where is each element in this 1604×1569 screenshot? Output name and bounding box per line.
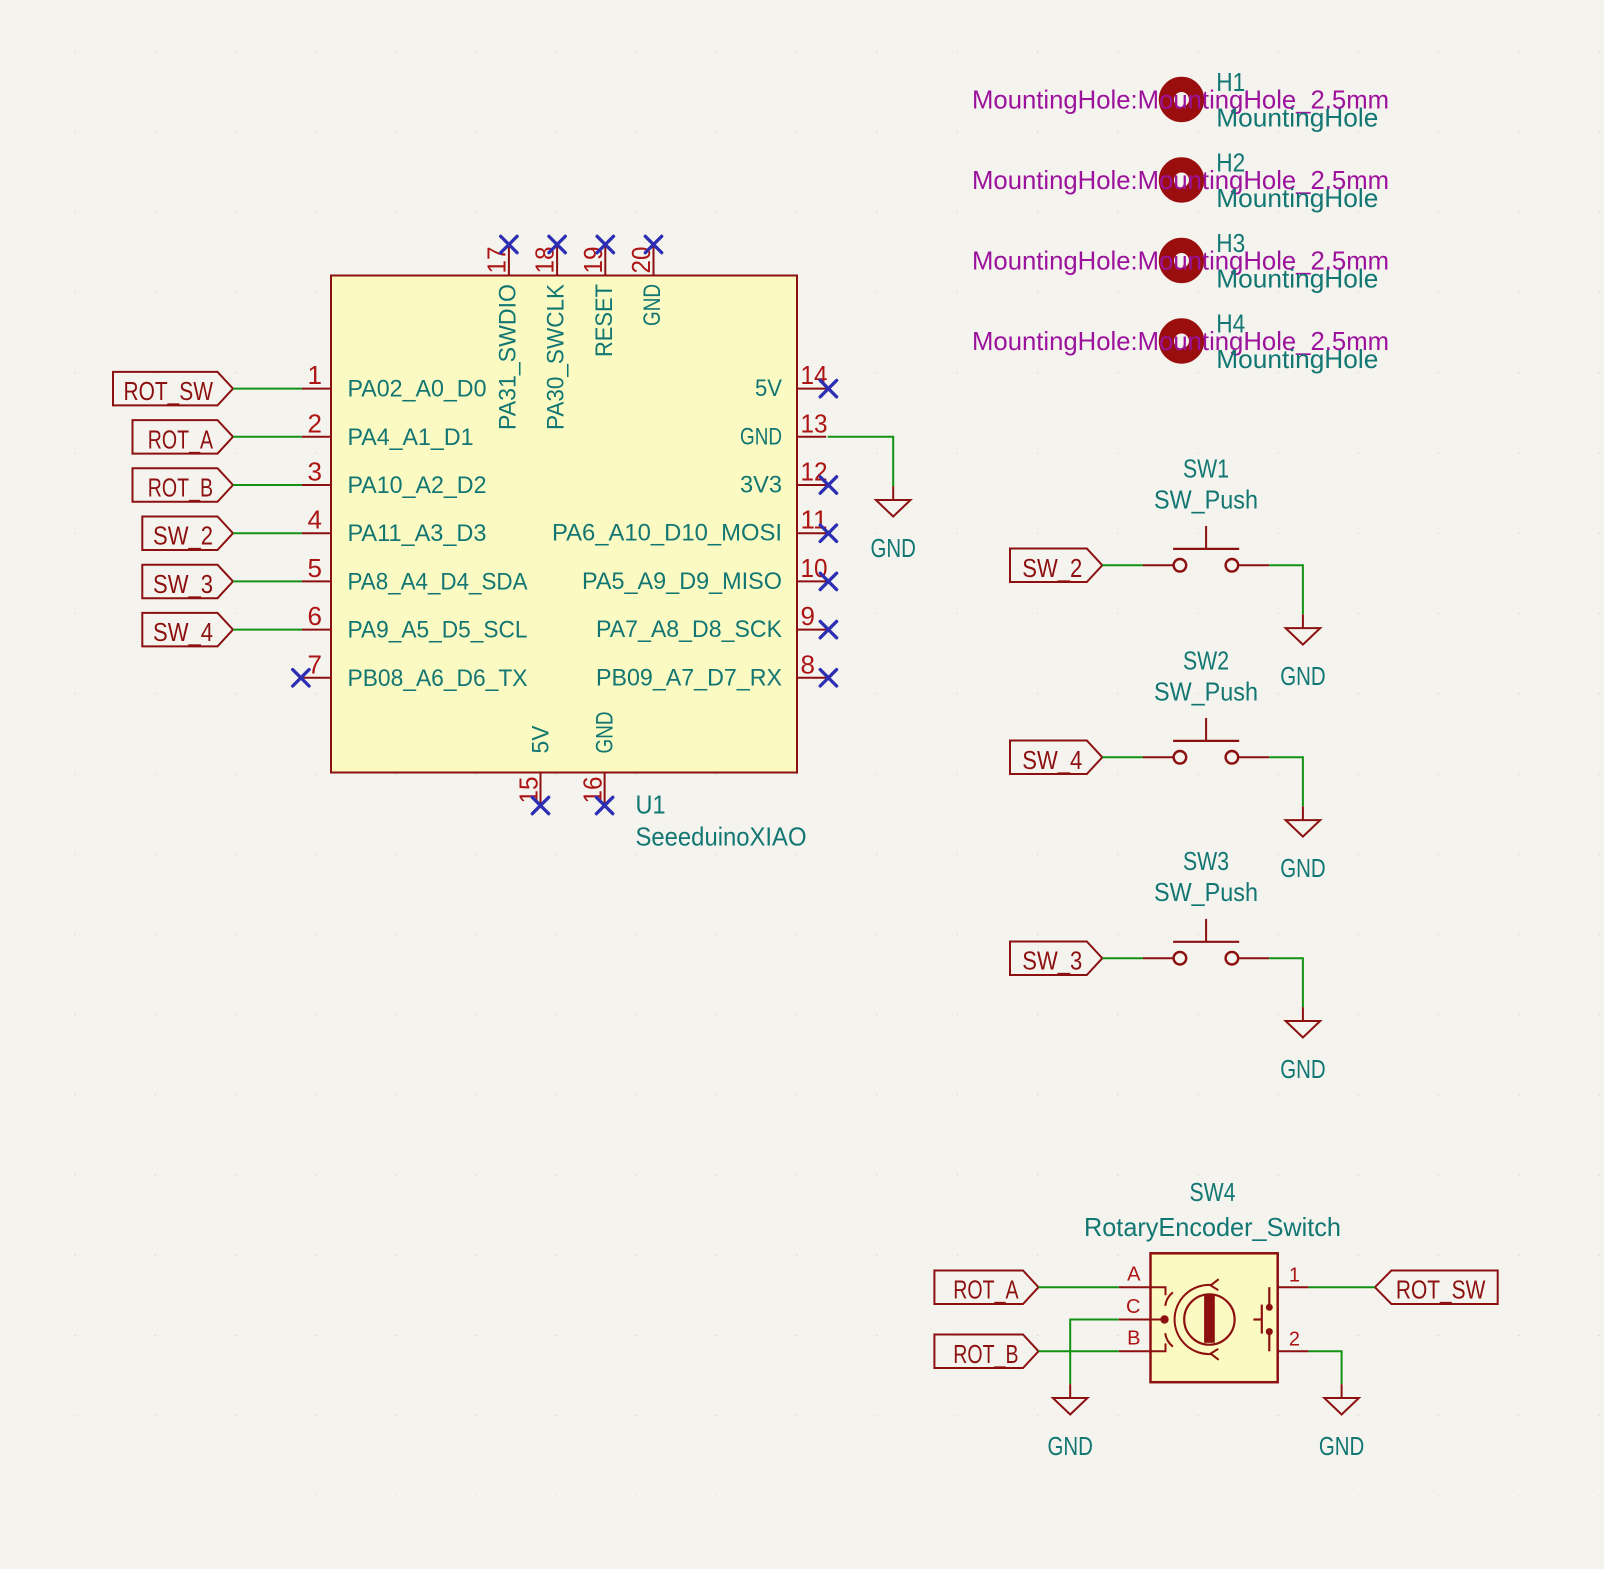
U1 pin 16 (GND) (578, 712, 619, 805)
svg-text:MountingHole: MountingHole (1216, 183, 1378, 213)
svg-text:MountingHole: MountingHole (1216, 344, 1378, 374)
svg-text:GND: GND (1280, 661, 1325, 691)
svg-text:U1: U1 (636, 790, 666, 820)
SW4 pin B (1119, 1328, 1151, 1352)
svg-text:SW_3: SW_3 (1022, 946, 1082, 976)
svg-text:RESET: RESET (591, 284, 618, 357)
switch SW2 (SW_Push) (1143, 645, 1269, 763)
svg-text:PA11_A3_D3: PA11_A3_D3 (348, 520, 487, 547)
svg-text:6: 6 (308, 601, 322, 631)
svg-text:ROT_SW: ROT_SW (124, 376, 214, 406)
switch SW3 (SW_Push) (1143, 846, 1269, 964)
svg-text:B: B (1127, 1328, 1140, 1350)
no-connect pin 18 (549, 236, 565, 252)
ground GND5 (1319, 1384, 1364, 1461)
svg-text:SW_4: SW_4 (1022, 745, 1082, 775)
wire SW_3 to U1 pin 5 (233, 580, 302, 582)
global label SW_4 (142, 613, 233, 647)
svg-text:GND: GND (1048, 1431, 1093, 1461)
wire SW4 pin 1 to ROT_SW (1309, 1286, 1375, 1288)
svg-text:PA6_A10_D10_MOSI: PA6_A10_D10_MOSI (552, 520, 782, 547)
svg-text:5V: 5V (755, 375, 782, 402)
svg-text:20: 20 (626, 247, 656, 274)
global label ROT_A (133, 420, 234, 454)
global label SW_4 (1010, 741, 1102, 775)
no-connect pin 16 (596, 797, 612, 813)
svg-text:GND: GND (1319, 1431, 1364, 1461)
wire SW_2 to SW1 (1102, 564, 1143, 566)
global label SW_3 (1010, 942, 1102, 976)
U1 pin 18 (PA30_SWCLK) (530, 245, 570, 431)
svg-text:SW_4: SW_4 (153, 617, 213, 647)
U1 pin 15 (5V) (514, 726, 555, 805)
wire SW1 to GND (1269, 565, 1303, 614)
svg-text:ROT_A: ROT_A (953, 1275, 1019, 1305)
wire SW4 pin C to GND (1070, 1320, 1119, 1385)
SW4 pin 2 (1278, 1329, 1309, 1352)
IC U1 body (331, 276, 797, 773)
svg-text:SW1: SW1 (1183, 453, 1229, 483)
wire ROT_A to SW4 pin A (1039, 1286, 1119, 1288)
mounting hole H3 (972, 228, 1389, 294)
U1 pin 3 (PA10_A2_D2) (302, 457, 487, 500)
no-connect pin 19 (597, 236, 613, 252)
svg-text:C: C (1126, 1296, 1140, 1318)
svg-text:MountingHole: MountingHole (1216, 264, 1378, 294)
no-connect pin 12 (820, 477, 836, 493)
svg-text:SW_2: SW_2 (153, 521, 213, 551)
no-connect pin 14 (820, 380, 836, 396)
no-connect pin 10 (820, 573, 836, 589)
U1 pin 19 (RESET) (578, 245, 618, 358)
svg-text:RotaryEncoder_Switch: RotaryEncoder_Switch (1084, 1212, 1341, 1242)
U1 pin 9 (PA7_A8_D8_SCK) (596, 601, 826, 643)
svg-text:PB08_A6_D6_TX: PB08_A6_D6_TX (348, 665, 528, 692)
svg-text:SW_3: SW_3 (153, 569, 213, 599)
U1 pin 17 (PA31_SWDIO) (481, 245, 521, 431)
no-connect pin 9 (820, 621, 836, 637)
U1 pin 1 (PA02_A0_D0) (302, 360, 487, 403)
svg-text:13: 13 (801, 408, 828, 438)
svg-text:PA8_A4_D4_SDA: PA8_A4_D4_SDA (348, 568, 528, 595)
rotary encoder SW4 reference and value (1084, 1177, 1341, 1242)
svg-text:GND: GND (1280, 1054, 1325, 1084)
ground GND_SW3 (1280, 1007, 1325, 1084)
U1 pin 11 (PA6_A10_D10_MOSI) (552, 505, 828, 547)
mounting hole H1 (972, 67, 1389, 133)
svg-text:GND: GND (871, 533, 916, 563)
svg-text:9: 9 (801, 601, 815, 631)
svg-text:SW_Push: SW_Push (1154, 676, 1258, 706)
svg-text:SW_2: SW_2 (1022, 553, 1082, 583)
svg-text:PA5_A9_D9_MISO: PA5_A9_D9_MISO (582, 568, 782, 595)
svg-text:7: 7 (308, 649, 322, 679)
svg-text:ROT_A: ROT_A (148, 424, 214, 454)
no-connect pin 8 (820, 670, 836, 686)
SW4 pin A (1119, 1264, 1151, 1288)
svg-text:PA30_SWCLK: PA30_SWCLK (543, 284, 570, 430)
svg-text:3: 3 (308, 457, 322, 487)
wire SW_2 to U1 pin 4 (233, 532, 302, 534)
ground GND_SW2 (1280, 806, 1325, 883)
svg-text:GND: GND (639, 284, 666, 326)
svg-text:PA9_A5_D5_SCL: PA9_A5_D5_SCL (348, 617, 528, 644)
U1 reference and value (636, 790, 807, 852)
U1 pin 7 (PB08_A6_D6_TX) (302, 649, 528, 692)
wire SW4 pin 2 to GND (1309, 1351, 1342, 1384)
wire ROT_A to U1 pin 2 (233, 436, 302, 438)
wire ROT_SW to U1 pin 1 (233, 388, 302, 390)
mounting hole H4 (972, 309, 1389, 375)
wire SW3 to GND (1269, 958, 1303, 1007)
U1 pin 6 (PA9_A5_D5_SCL) (302, 601, 528, 644)
no-connect pin 15 (532, 797, 548, 813)
global label ROT_B (133, 468, 234, 502)
U1 pin 4 (PA11_A3_D3) (302, 505, 487, 548)
svg-text:SW_Push: SW_Push (1154, 877, 1258, 907)
svg-text:PB09_A7_D7_RX: PB09_A7_D7_RX (596, 664, 782, 691)
ground GND1 (871, 486, 916, 563)
svg-text:SW_Push: SW_Push (1154, 484, 1258, 514)
U1 pin 10 (PA5_A9_D9_MISO) (582, 553, 828, 595)
U1 pin 5 (PA8_A4_D4_SDA) (302, 553, 528, 596)
svg-text:17: 17 (481, 247, 511, 274)
svg-text:PA4_A1_D1: PA4_A1_D1 (348, 424, 474, 451)
svg-text:2: 2 (1289, 1329, 1300, 1351)
svg-text:16: 16 (578, 777, 608, 804)
svg-text:8: 8 (801, 649, 815, 679)
svg-text:SW4: SW4 (1190, 1177, 1236, 1207)
U1 pin 12 (3V3) (740, 457, 828, 499)
mounting hole H2 (972, 148, 1389, 214)
svg-text:3V3: 3V3 (740, 472, 782, 499)
svg-text:SeeeduinoXIAO: SeeeduinoXIAO (636, 822, 807, 852)
SW4 pin 1 (1278, 1265, 1309, 1288)
U1 pin 13 (GND) (740, 408, 828, 450)
svg-text:1: 1 (308, 360, 322, 390)
svg-text:4: 4 (308, 505, 322, 535)
svg-text:GND: GND (592, 712, 619, 754)
U1 pin 2 (PA4_A1_D1) (302, 408, 474, 451)
U1 pin 14 (5V) (755, 360, 828, 402)
SW4 pin C (1119, 1296, 1151, 1320)
no-connect pin 11 (820, 525, 836, 541)
no-connect pin 17 (501, 236, 517, 252)
wire ROT_B to U1 pin 3 (233, 484, 302, 486)
ground GND_SW1 (1280, 614, 1325, 691)
global label ROT_SW (SW4) (1375, 1271, 1498, 1305)
wire SW_3 to SW3 (1102, 957, 1143, 959)
global label ROT_B (SW4) (934, 1335, 1038, 1369)
svg-text:ROT_SW: ROT_SW (1396, 1275, 1486, 1305)
svg-text:5V: 5V (528, 726, 555, 754)
svg-text:GND: GND (1280, 853, 1325, 883)
no-connect pin 20 (645, 236, 661, 252)
no-connect pin 7 (293, 670, 309, 686)
wire SW_4 to SW2 (1102, 756, 1143, 758)
svg-text:MountingHole: MountingHole (1216, 103, 1378, 133)
switch SW1 (SW_Push) (1143, 453, 1269, 571)
wire ROT_B to SW4 pin B (1039, 1350, 1119, 1352)
svg-text:15: 15 (514, 777, 544, 804)
svg-text:PA02_A0_D0: PA02_A0_D0 (348, 376, 487, 403)
svg-text:PA7_A8_D8_SCK: PA7_A8_D8_SCK (596, 616, 782, 643)
global label ROT_SW (113, 372, 233, 406)
svg-text:PA31_SWDIO: PA31_SWDIO (494, 284, 521, 430)
rotary encoder SW4 body (1151, 1253, 1278, 1382)
svg-text:2: 2 (308, 408, 322, 438)
U1 pin 20 (GND) (626, 245, 666, 327)
wire U1 pin 13 to GND (828, 437, 894, 486)
U1 pin 8 (PB09_A7_D7_RX) (596, 649, 826, 691)
svg-text:ROT_B: ROT_B (148, 473, 213, 503)
svg-text:19: 19 (578, 247, 608, 274)
wire SW2 to GND (1269, 757, 1303, 806)
svg-text:1: 1 (1289, 1265, 1300, 1287)
svg-text:GND: GND (740, 423, 782, 450)
global label ROT_A (SW4) (934, 1271, 1038, 1305)
svg-text:18: 18 (530, 247, 560, 274)
svg-text:5: 5 (308, 553, 322, 583)
wire SW_4 to U1 pin 6 (233, 629, 302, 631)
ground GND4 (1048, 1384, 1093, 1461)
global label SW_2 (142, 517, 233, 551)
svg-text:SW2: SW2 (1183, 645, 1229, 675)
svg-text:PA10_A2_D2: PA10_A2_D2 (348, 472, 487, 499)
global label SW_2 (1010, 549, 1102, 583)
svg-text:A: A (1127, 1264, 1141, 1286)
svg-text:SW3: SW3 (1183, 846, 1229, 876)
global label SW_3 (142, 565, 233, 599)
svg-text:ROT_B: ROT_B (953, 1339, 1018, 1369)
